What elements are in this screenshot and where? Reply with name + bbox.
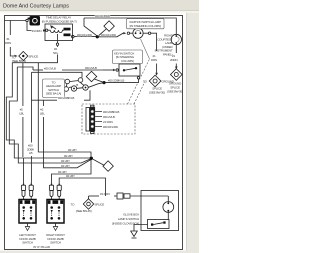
svg-text:#20 2DBK/LB: #20 2DBK/LB bbox=[108, 78, 124, 82]
svg-text:LAMP & SWITCH: LAMP & SWITCH bbox=[118, 217, 139, 221]
svg-text:#20 2DBK/LB: #20 2DBK/LB bbox=[58, 96, 74, 100]
ground glove box bbox=[131, 231, 138, 238]
wire courtesy lamp to ground bbox=[175, 45, 178, 70]
splice S2 diamond bbox=[99, 21, 115, 36]
svg-text:GLOVE BOX: GLOVE BOX bbox=[123, 212, 139, 216]
svg-text:[IN STEERING COLUMN]: [IN STEERING COLUMN] bbox=[130, 24, 161, 28]
wire 2DBK/LB long vertical bbox=[30, 72, 32, 183]
wire door switch feed left capsule bbox=[22, 63, 25, 184]
wire relay output bbox=[74, 36, 96, 38]
headlamp switch cluster bbox=[64, 78, 88, 92]
svg-text:LBL: LBL bbox=[40, 111, 45, 115]
wire top run to courtesy lamp bbox=[84, 18, 176, 34]
label to headlamp switch bbox=[43, 79, 65, 98]
splice G5 diamond bbox=[83, 196, 93, 209]
wire drop from top run to junction bbox=[84, 18, 97, 36]
label right front door jamb switch bbox=[46, 233, 65, 245]
switch key-in switch bbox=[119, 64, 140, 76]
callout dashed line 1 bbox=[128, 59, 150, 104]
svg-text:B: B bbox=[76, 83, 78, 87]
svg-text:#20 2VLB: #20 2VLB bbox=[85, 66, 97, 70]
svg-text:SPLICE: SPLICE bbox=[29, 55, 39, 59]
wire5 right capsule bbox=[52, 160, 92, 184]
splice headlamp diamond bbox=[86, 71, 103, 82]
svg-text:[SEE 8W-30]: [SEE 8W-30] bbox=[167, 90, 183, 94]
callout dashed line 2 bbox=[134, 82, 145, 105]
svg-text:SWITCH: SWITCH bbox=[50, 241, 61, 245]
wire relay coil return NFL bbox=[12, 41, 58, 63]
wire stub to cluster bbox=[32, 72, 83, 77]
lamp ignition switch lamp bbox=[127, 28, 151, 38]
lamp right courtesy lamp bbox=[171, 34, 181, 44]
wire key-in feed rail Q bbox=[17, 67, 103, 70]
wire left rail P bbox=[6, 63, 91, 158]
wire cluster to junction bbox=[89, 83, 105, 88]
switch left front door jamb bbox=[19, 200, 36, 231]
dashed actuator ignition lamp to key-in bbox=[141, 39, 150, 59]
wire key-in switch feed bbox=[103, 69, 118, 71]
label key-in switch bbox=[113, 50, 143, 64]
title bar bbox=[0, 0, 199, 11]
bottom gray margin bbox=[0, 251, 199, 253]
glove box lamp and switch box bbox=[134, 191, 179, 232]
wire battery feed top left bbox=[5, 19, 29, 21]
wire glove box feed bbox=[89, 195, 169, 197]
svg-text:#20 DFL/RD: #20 DFL/RD bbox=[77, 33, 93, 37]
svg-text:#2 LBY: #2 LBY bbox=[68, 148, 77, 152]
svg-text:#20 DFL/RD: #20 DFL/RD bbox=[95, 14, 111, 18]
splice ground splice right bbox=[171, 69, 183, 81]
connector inline C2 bbox=[117, 193, 130, 199]
splice S4 diamond bbox=[93, 159, 113, 171]
svg-text:LB: LB bbox=[29, 151, 32, 155]
svg-text:[INSIDE GLOVE BOX]: [INSIDE GLOVE BOX] bbox=[112, 221, 139, 225]
svg-text:#20 2DBK/LB: #20 2DBK/LB bbox=[103, 110, 119, 114]
wire cluster bottom 2DBK/LB bbox=[32, 90, 91, 100]
node lamp feed junction bbox=[90, 157, 93, 160]
wire capsules into switch boxes bbox=[24, 196, 60, 199]
svg-text:LBL: LBL bbox=[19, 111, 24, 115]
label right courtesy lamp bbox=[155, 34, 174, 57]
svg-text:[SEE 8W-30]: [SEE 8W-30] bbox=[149, 91, 165, 95]
svg-text:#20 DFL/RD: #20 DFL/RD bbox=[103, 125, 119, 129]
svg-text:DRN: DRN bbox=[151, 58, 157, 62]
connector C100 dashed detail box bbox=[82, 104, 135, 134]
wire relay branch down x38 bbox=[38, 63, 91, 157]
label ignition switch lamp bbox=[127, 19, 165, 29]
svg-text:#2 LBY: #2 LBY bbox=[61, 164, 70, 168]
svg-text:#20 2VLB: #20 2VLB bbox=[44, 66, 56, 70]
fuse F4 (black box with ring) bbox=[28, 16, 40, 26]
label left front door jamb switch bbox=[19, 233, 36, 245]
svg-text:#20 2VLB: #20 2VLB bbox=[103, 115, 115, 119]
connector capsule R1 bbox=[49, 184, 53, 197]
svg-text:NFL: NFL bbox=[53, 51, 59, 55]
svg-text:[SEE 8W-6]: [SEE 8W-6] bbox=[12, 59, 26, 63]
node S2 junction bbox=[96, 35, 99, 38]
svg-text:Dome And Courtesy Lamps: Dome And Courtesy Lamps bbox=[3, 4, 69, 10]
svg-text:[SEE 8W-45]: [SEE 8W-45] bbox=[76, 209, 92, 213]
wire ignition lamp to ground splice bbox=[151, 33, 158, 76]
svg-text:#1 DRN: #1 DRN bbox=[100, 192, 110, 196]
svg-text:2DRN: 2DRN bbox=[170, 58, 177, 62]
switch right front door jamb bbox=[47, 200, 64, 231]
svg-text:#2 LBY: #2 LBY bbox=[61, 159, 70, 163]
svg-text:COLUMN]: COLUMN] bbox=[121, 59, 134, 63]
svg-text:21 DRN: 21 DRN bbox=[103, 120, 113, 124]
svg-text:SWITCH: SWITCH bbox=[22, 241, 33, 245]
wire to relay bbox=[27, 22, 47, 32]
splice A top left bbox=[10, 21, 28, 61]
svg-text:IN "A" PILLAR: IN "A" PILLAR bbox=[33, 245, 51, 249]
diagram frame bbox=[5, 16, 183, 250]
svg-text:#20 DFL/RD: #20 DFL/RD bbox=[101, 33, 117, 37]
svg-text:[SEE 8A-1A]: [SEE 8A-1A] bbox=[46, 92, 61, 96]
svg-text:SPLICE: SPLICE bbox=[95, 203, 105, 207]
svg-text:DRN: DRN bbox=[5, 41, 11, 45]
svg-text:#2 LBY: #2 LBY bbox=[66, 174, 75, 178]
wire branch x43 bbox=[44, 100, 92, 168]
wire key-in switch lower terminal bbox=[106, 77, 140, 83]
svg-text:(IN FUSEBLOCK)[SEE 8A-7]: (IN FUSEBLOCK)[SEE 8A-7] bbox=[42, 19, 77, 23]
connector capsule L2 bbox=[29, 184, 33, 197]
splice ground splice left bbox=[149, 75, 161, 87]
node headlamp junction bbox=[102, 81, 105, 84]
connector capsule L1 bbox=[21, 184, 25, 197]
relay K1 time delay relay bbox=[45, 24, 74, 41]
svg-text:#1 DRN: #1 DRN bbox=[32, 29, 42, 33]
connector capsule R2 bbox=[57, 184, 61, 197]
svg-text:#2 LBY: #2 LBY bbox=[64, 154, 73, 158]
label glove box lamp and switch bbox=[112, 212, 139, 225]
right gray margin bbox=[186, 13, 199, 253]
wire junction to ignition lamp bbox=[99, 32, 127, 37]
wire6 to glove box bbox=[59, 178, 105, 196]
wire rail Q down bbox=[9, 67, 91, 163]
